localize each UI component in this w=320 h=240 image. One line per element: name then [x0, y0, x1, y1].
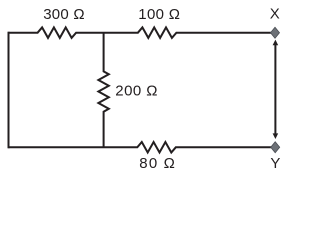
svg-text:Y: Y	[270, 155, 280, 172]
svg-text:100 Ω: 100 Ω	[138, 6, 180, 23]
svg-text:X: X	[270, 5, 280, 22]
svg-text:200 Ω: 200 Ω	[115, 83, 157, 100]
svg-text:300 Ω: 300 Ω	[43, 6, 84, 23]
svg-text:80 Ω: 80 Ω	[139, 155, 175, 172]
